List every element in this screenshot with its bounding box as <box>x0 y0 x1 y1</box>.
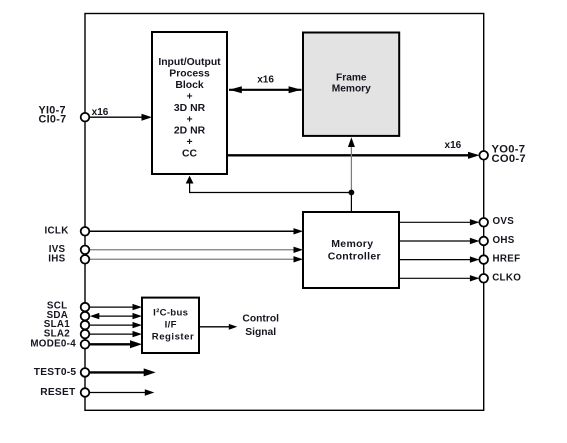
svg-text:IHS: IHS <box>48 254 65 265</box>
svg-text:CC: CC <box>182 149 198 160</box>
svg-text:OVS: OVS <box>493 216 515 227</box>
svg-text:RESET: RESET <box>40 387 76 398</box>
svg-text:CI0-7: CI0-7 <box>39 113 67 125</box>
svg-text:ICLK: ICLK <box>45 225 69 236</box>
svg-text:Controller: Controller <box>328 250 381 262</box>
svg-text:x16: x16 <box>257 75 274 86</box>
svg-text:I/F: I/F <box>165 320 177 331</box>
svg-text:CLKO: CLKO <box>492 273 521 284</box>
svg-text:Input/Output: Input/Output <box>158 57 221 68</box>
svg-text:+: + <box>186 114 192 125</box>
svg-text:+: + <box>186 91 192 102</box>
svg-text:MODE0-4: MODE0-4 <box>30 339 76 350</box>
svg-text:OHS: OHS <box>493 235 515 246</box>
svg-text:Memory: Memory <box>332 84 371 95</box>
svg-text:Process: Process <box>169 69 210 80</box>
svg-text:Register: Register <box>152 332 194 343</box>
svg-text:HREF: HREF <box>493 253 521 264</box>
svg-text:Control: Control <box>242 313 279 324</box>
svg-text:Block: Block <box>175 80 204 91</box>
svg-text:I²C-bus: I²C-bus <box>153 308 188 319</box>
svg-text:+: + <box>186 137 192 148</box>
svg-text:2D NR: 2D NR <box>174 126 206 137</box>
svg-text:Memory: Memory <box>331 238 373 250</box>
svg-text:Frame: Frame <box>336 73 367 84</box>
svg-text:x16: x16 <box>445 140 462 151</box>
svg-text:TEST0-5: TEST0-5 <box>34 367 77 378</box>
svg-text:Signal: Signal <box>245 327 276 338</box>
svg-text:x16: x16 <box>92 107 109 118</box>
svg-text:CO0-7: CO0-7 <box>492 153 526 165</box>
svg-text:3D NR: 3D NR <box>174 103 206 114</box>
